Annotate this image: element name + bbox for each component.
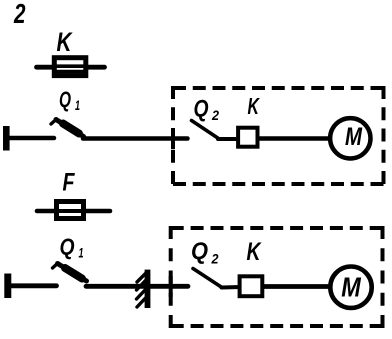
svg-text:1: 1 <box>79 245 84 261</box>
label Q2 (top) <box>194 96 220 124</box>
wire switch Q1 to enclosure (bottom) <box>86 284 188 289</box>
switch Q2 (top) <box>192 121 219 139</box>
svg-text:K: K <box>248 93 260 119</box>
fuse K <box>37 58 105 76</box>
disconnect switch Q1 (bottom) <box>53 263 87 281</box>
svg-text:Q: Q <box>60 234 75 260</box>
svg-text:K: K <box>57 27 74 57</box>
svg-text:Q: Q <box>194 96 209 123</box>
wire switch Q2 to contactor K (bottom) <box>222 285 242 290</box>
svg-text:M: M <box>341 271 361 302</box>
svg-text:K: K <box>247 238 263 266</box>
disconnect switch Q1 (top) <box>51 119 84 137</box>
contactor K (bottom) <box>240 276 263 296</box>
motor M (bottom) <box>330 267 371 308</box>
wire contactor K to motor (top) <box>260 136 330 141</box>
svg-text:F: F <box>63 169 76 197</box>
svg-text:2: 2 <box>211 107 219 123</box>
wire terminal to switch Q1 (bottom) <box>11 283 57 288</box>
enclosure (bottom, dashed) <box>171 226 383 328</box>
svg-text:1: 1 <box>75 97 80 113</box>
motor M (top) <box>330 118 370 158</box>
label Q2 (bottom) <box>191 238 219 267</box>
fuse K label <box>57 27 74 57</box>
wire switch Q1 to enclosure (top) <box>83 136 188 141</box>
figure number 2 <box>13 0 26 29</box>
svg-text:2: 2 <box>13 0 26 29</box>
supply terminal (bottom) <box>4 274 11 299</box>
wire switch Q2 to contactor K (top) <box>218 137 239 141</box>
svg-text:Q: Q <box>59 87 71 112</box>
label K contactor (top) <box>248 93 260 119</box>
wire contactor K to motor (bottom) <box>264 284 329 289</box>
switch Q2 (bottom) <box>193 269 222 288</box>
label K contactor (bottom) <box>247 238 263 266</box>
wall bushing hatching (bottom) <box>137 270 148 308</box>
label Q1 (top) <box>59 87 80 113</box>
enclosure (top, dashed) <box>173 86 384 186</box>
fuse F <box>37 202 110 219</box>
label Q1 (bottom) <box>60 234 84 261</box>
svg-text:M: M <box>345 123 363 151</box>
fuse F label <box>63 169 76 197</box>
contactor K (top) <box>238 128 257 147</box>
wire terminal to switch Q1 (top) <box>9 136 54 141</box>
supply terminal (top) <box>3 126 10 151</box>
svg-text:2: 2 <box>211 251 219 267</box>
svg-text:Q: Q <box>191 238 208 265</box>
